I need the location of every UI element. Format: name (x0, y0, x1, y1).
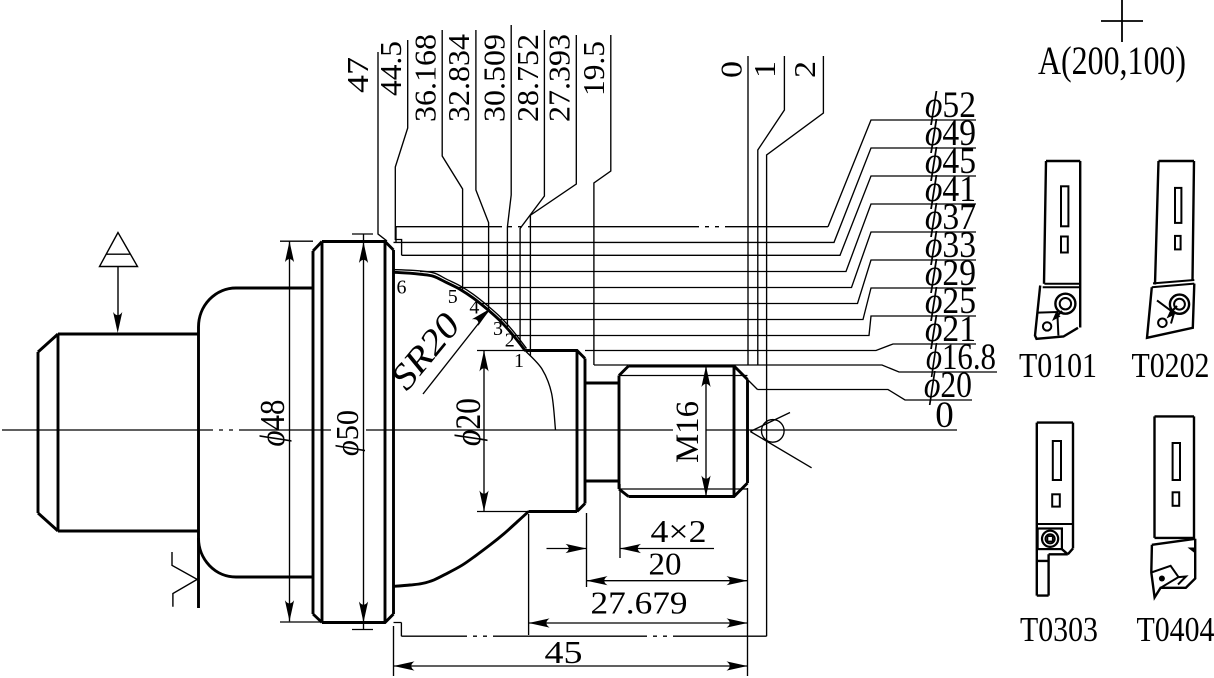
leader 2 (767, 56, 824, 636)
tailstock centre symbol (750, 413, 811, 468)
tool T0404 (1151, 416, 1195, 597)
svg-text:5: 5 (448, 286, 458, 308)
dim phi50 (352, 234, 373, 630)
leader 47 (378, 52, 387, 241)
texts (340, 33, 822, 122)
tool T0202 (1147, 161, 1194, 338)
pass line phi16.8 (594, 365, 997, 372)
svg-text:ϕ48: ϕ48 (253, 400, 292, 447)
svg-text:ϕ50: ϕ50 (329, 410, 365, 456)
leader 36.168 (442, 30, 462, 290)
dim 27.679 (529, 514, 748, 635)
part: phi50 flange (313, 242, 394, 623)
leader 19.5 (594, 35, 611, 365)
leader 32.834 (476, 30, 489, 310)
svg-text:36.168: 36.168 (408, 34, 443, 122)
pass line phi33 (480, 260, 976, 304)
centerline (2, 429, 957, 431)
thread root thin lines (619, 376, 748, 490)
stock bottom dash-dot line with steps (394, 623, 402, 637)
dimensions (280, 234, 748, 676)
pass line phi45 (402, 176, 976, 255)
svg-text:6: 6 (397, 277, 407, 299)
leader 44.5 (395, 40, 407, 255)
sphere thin outer allowance arc (394, 270, 527, 349)
pass line phi29 (499, 288, 976, 320)
tool labels (1019, 346, 1214, 649)
pass line phi20 (758, 390, 973, 401)
svg-text:T0303: T0303 (1020, 610, 1098, 649)
arrowheads (113, 241, 747, 670)
dim SR20 leader (423, 310, 490, 395)
svg-text:4×2: 4×2 (651, 513, 707, 549)
clamp V symbol bottom (172, 552, 197, 607)
svg-text:T0404: T0404 (1137, 610, 1214, 649)
leader 1 (758, 56, 785, 365)
svg-text:27.679: 27.679 (591, 585, 688, 621)
node numbers (397, 277, 525, 373)
svg-text:T0101: T0101 (1019, 346, 1097, 385)
svg-text:3: 3 (493, 318, 503, 340)
svg-text:4: 4 (469, 297, 479, 319)
part: groove 4x2 (585, 383, 619, 481)
tool T0303 (1037, 423, 1073, 596)
pass line phi25 (513, 316, 976, 336)
pass line phi49 (394, 148, 977, 242)
dim 45 (394, 488, 748, 676)
svg-text:45: 45 (545, 634, 583, 670)
part: phi48 body (199, 288, 314, 608)
dim phi48 (280, 241, 322, 622)
leader 27.393 (530, 35, 576, 356)
svg-text:28.752: 28.752 (510, 34, 545, 122)
svg-text:20: 20 (649, 546, 682, 582)
svg-text:44.5: 44.5 (373, 41, 408, 96)
sphere thin continuation arc to centerline (526, 351, 556, 430)
svg-text:0: 0 (935, 395, 954, 436)
part: sphere SR20 thick arcs (394, 272, 529, 586)
svg-text:47: 47 (340, 57, 375, 93)
part: thread M16 (619, 366, 748, 497)
svg-text:A(200,100): A(200,100) (1038, 38, 1186, 83)
svg-text:32.834: 32.834 (441, 33, 476, 122)
thread chamfer thin extension (748, 380, 758, 390)
svg-text:1: 1 (747, 61, 782, 78)
bottom dim texts (545, 513, 707, 670)
svg-text:1: 1 (514, 350, 524, 372)
leader 0 (747, 56, 749, 365)
leader 30.509 (507, 25, 511, 329)
svg-text:2: 2 (787, 61, 822, 78)
svg-text:T0202: T0202 (1132, 346, 1210, 385)
svg-text:27.393: 27.393 (542, 34, 577, 122)
svg-text:M16: M16 (670, 401, 706, 463)
svg-text:0: 0 (714, 61, 749, 78)
tool T0101 (1035, 161, 1080, 339)
rotated dim texts (253, 305, 706, 463)
dim 4x2 (547, 484, 715, 587)
svg-text:ϕ20: ϕ20 (448, 398, 488, 446)
leader 28.752 (520, 30, 544, 344)
pass line phi21 (585, 344, 976, 351)
dim M16 (705, 366, 707, 497)
stock phi52 dash-dot line (396, 226, 828, 228)
pass line phi52 diagonal+shelf (828, 120, 976, 227)
pass line phi37 (456, 232, 976, 288)
clamp symbol top (100, 233, 138, 327)
svg-text:2: 2 (505, 330, 515, 352)
dim phi20 (477, 351, 529, 512)
part: chuck cylinder (38, 334, 198, 531)
part: phi20 neck (526, 351, 586, 512)
svg-text:19.5: 19.5 (576, 41, 611, 96)
stock outline step top-left (395, 227, 397, 243)
pass line phi41 (420, 204, 976, 272)
dim 20 (587, 580, 748, 582)
cross A(200,100) (1101, 0, 1143, 42)
svg-text:30.509: 30.509 (477, 34, 512, 122)
